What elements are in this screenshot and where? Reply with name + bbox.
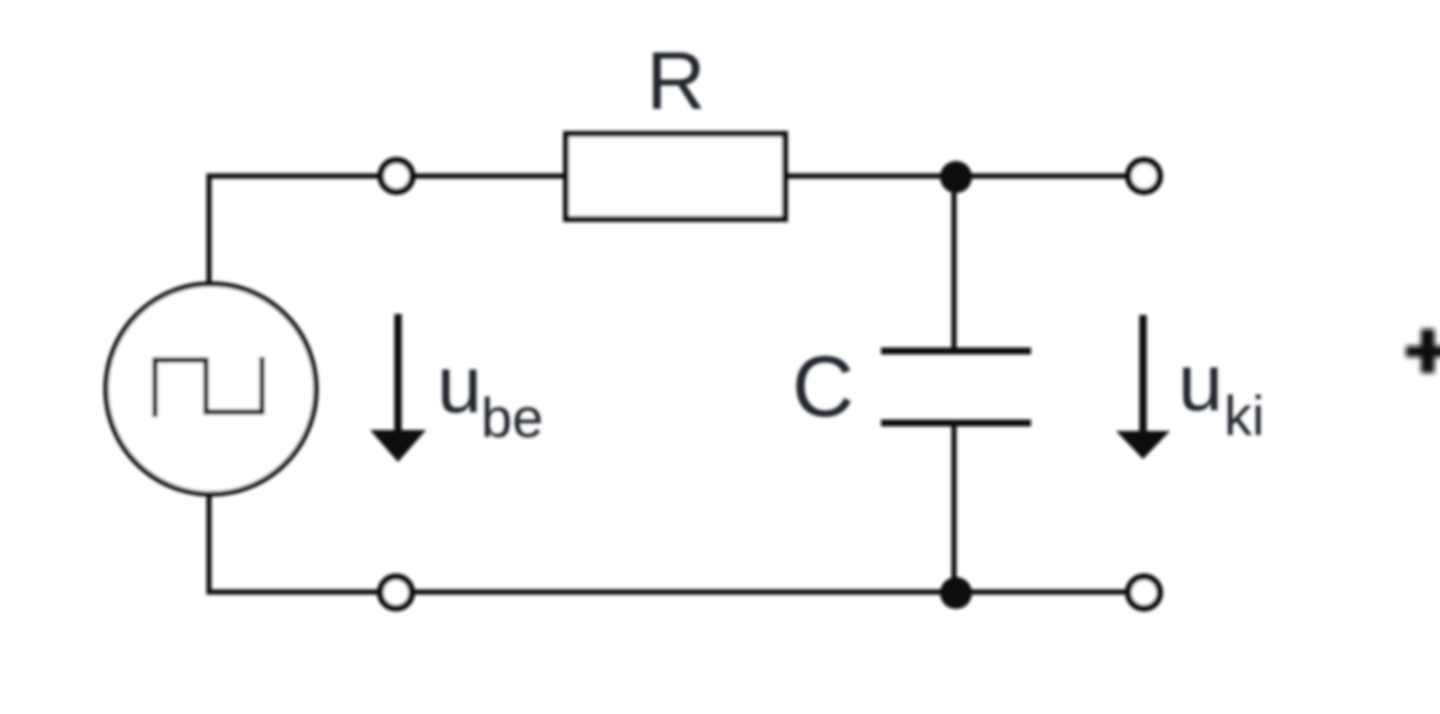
svg-text:be: be [481,386,543,449]
svg-text:R: R [646,36,705,127]
svg-text:u: u [437,340,482,430]
svg-text:C: C [792,339,854,435]
svg-text:u: u [1178,338,1223,428]
svg-text:ki: ki [1224,384,1264,447]
